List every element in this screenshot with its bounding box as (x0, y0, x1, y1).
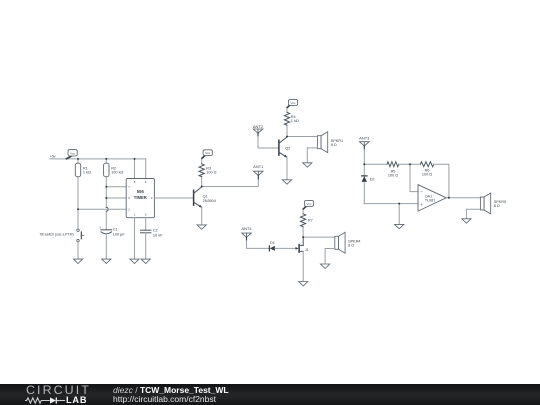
wire to op-amp plus input (364, 203, 418, 205)
ground under SPKR4 (321, 264, 330, 268)
svg-text:C2: C2 (153, 228, 158, 232)
svg-text:10 nF: 10 nF (153, 234, 163, 238)
svg-text:8 Ω: 8 Ω (348, 243, 354, 247)
speaker SPKR1 (317, 132, 343, 153)
ground under Q1 (197, 225, 206, 229)
antenna ANT1 (253, 164, 264, 179)
ground under SPKR5 (462, 219, 471, 223)
svg-text:Tilt switch (use a PTM): Tilt switch (use a PTM) (39, 233, 73, 237)
svg-text:100 Ω: 100 Ω (206, 170, 216, 174)
wire Q2 emitter to ground (286, 157, 288, 180)
svg-text:TL081: TL081 (425, 198, 435, 202)
speaker SPKR5 (480, 193, 506, 214)
junction R2 pin7 (105, 186, 107, 188)
svg-text:Vcc: Vcc (290, 101, 296, 105)
footer title (113, 385, 229, 395)
svg-text:R7: R7 (308, 219, 313, 223)
junction op-amp output (448, 197, 450, 199)
svg-text:+: + (420, 202, 423, 207)
svg-text:100 kΩ: 100 kΩ (111, 171, 123, 175)
wire top +5v rail (50, 158, 146, 160)
wire ANT4 to D1 (247, 241, 270, 249)
junction R5 R6 feedback (409, 163, 411, 165)
capacitor C2 (141, 228, 164, 259)
svg-text:100 µF: 100 µF (113, 233, 126, 237)
svg-text:ANT2: ANT2 (253, 124, 264, 129)
speaker SPKR4 (335, 232, 361, 253)
wire 555 pin8 vertical (134, 159, 136, 179)
power flag Vcc V3 (287, 100, 297, 108)
wire SPKR4 bottom to ground (325, 249, 335, 265)
svg-text:Vcc: Vcc (70, 151, 76, 155)
svg-text:8 Ω: 8 Ω (494, 204, 500, 208)
wire R5 to R6 (399, 163, 420, 165)
transistor J1 JFET (296, 237, 309, 252)
junction plus input ground (398, 203, 400, 205)
footer bar (0, 384, 540, 405)
ground at op-amp plus input (395, 224, 404, 228)
junction R1 pin2 wire (77, 208, 79, 210)
capacitor C1 (99, 226, 125, 259)
wire 555 pin7 (106, 186, 126, 188)
junction Q2 collector (286, 136, 288, 138)
resistor R5 (387, 162, 399, 178)
wire 555 pin6 (106, 197, 126, 199)
wire feedback node to op-amp minus input (410, 164, 418, 191)
resistor R2 (104, 159, 124, 230)
ground under 555 pin1 (130, 259, 139, 263)
svg-text:C1: C1 (113, 227, 118, 231)
footer url (113, 394, 216, 404)
svg-text:555: 555 (137, 189, 145, 194)
svg-text:ANT3: ANT3 (359, 136, 370, 141)
svg-text:D1: D1 (270, 241, 275, 245)
wire op-amp output to SPKR5 (446, 197, 480, 199)
wire J1 drain node to SPKR4 (303, 236, 335, 238)
wire SPKR1 bottom to ground (307, 148, 317, 163)
svg-text:1 kΩ: 1 kΩ (291, 119, 299, 123)
junction J1 drain (302, 236, 304, 238)
svg-text:Vcc: Vcc (205, 151, 211, 155)
power flag Vcc V1 (66, 150, 77, 159)
wire 555 pin5 to C2 (145, 218, 147, 231)
wire 555 pin3 to Q1 base (154, 197, 193, 199)
wire ANT2 to Q2 base (258, 137, 279, 148)
wire J1 source to ground (302, 251, 304, 281)
ground under C1 (102, 259, 111, 263)
antenna ANT2 (253, 124, 264, 136)
wire node to R5 (364, 163, 387, 165)
op-amp OA1 TL081 (418, 185, 446, 211)
svg-text:D2: D2 (370, 178, 375, 182)
svg-text:ANT4: ANT4 (241, 226, 252, 231)
wire 555 pin2 (78, 208, 126, 210)
diode D1 (269, 241, 275, 251)
junction ANT3 D2 (363, 163, 365, 165)
junction dots (77, 136, 450, 239)
svg-text:+5v: +5v (50, 154, 56, 158)
CircuitLab logo CIRCUIT (26, 383, 91, 397)
wire ground stem at plus input (398, 204, 400, 225)
resistor R1 (75, 159, 91, 229)
junction rail pin8 (134, 158, 136, 160)
wire SPKR5 bottom to ground (466, 209, 480, 219)
junction R2 pin6 (105, 197, 107, 199)
resistor R7 (301, 209, 313, 237)
wire Q1 collector to ANT1 (202, 179, 259, 187)
svg-text:Q2: Q2 (285, 147, 290, 151)
antenna ANT3 (359, 136, 370, 150)
svg-text:2N3904: 2N3904 (203, 199, 216, 203)
ground under SPKR1 (303, 163, 312, 167)
wire D1 to J1 gate (275, 247, 296, 249)
svg-text:Vcc: Vcc (306, 202, 312, 206)
ground under J1 (299, 282, 308, 286)
wire Q1 emitter to ground (201, 207, 203, 225)
ground under Q2 (282, 180, 291, 184)
CircuitLab logo LAB (66, 395, 87, 405)
antenna ANT4 (241, 226, 252, 241)
resistor R6 (420, 162, 433, 177)
wire R6 right to output (434, 164, 449, 198)
power flag Vcc V4 (303, 201, 313, 209)
svg-text:J1: J1 (305, 248, 309, 252)
junction Q1 collector (201, 186, 203, 188)
junction rail R2 (105, 158, 107, 160)
svg-text:1 kΩ: 1 kΩ (83, 171, 91, 175)
IC U1 555 TIMER (126, 179, 154, 218)
resistor R3 (199, 158, 217, 186)
diode D2 (362, 164, 375, 203)
ground under C2 (141, 259, 150, 263)
svg-text:TIMER: TIMER (134, 195, 147, 200)
svg-text:+: + (99, 226, 101, 230)
wire 555 pin1 to ground (134, 218, 136, 259)
ground under switch (73, 259, 82, 263)
svg-text:ANT1: ANT1 (253, 164, 264, 169)
junction rail R1 (77, 158, 79, 160)
svg-text:100 Ω: 100 Ω (422, 173, 432, 177)
wire ANT3 down to node (363, 149, 365, 164)
wire Q2 collector to SPKR1 (287, 136, 317, 138)
power flag Vcc V2 (202, 150, 212, 158)
resistor R4 (284, 107, 298, 136)
switch SW1 tilt switch (39, 229, 84, 259)
svg-text:100 Ω: 100 Ω (388, 174, 398, 178)
wire 555 pin4 vertical (145, 159, 147, 179)
transistor Q1 2N3904 (194, 187, 216, 207)
svg-text:−: − (420, 190, 423, 195)
transistor Q2 (279, 137, 290, 157)
CircuitLab logo squiggle (25, 396, 69, 405)
svg-text:8 Ω: 8 Ω (331, 143, 337, 147)
